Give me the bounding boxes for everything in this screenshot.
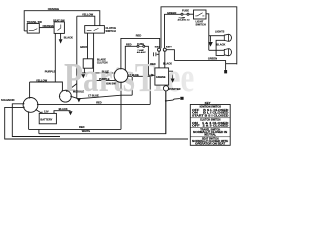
- svg-text:RED: RED: [150, 62, 156, 66]
- svg-text:AG-AGC: AG-AGC: [137, 51, 146, 54]
- svg-text:BLACK: BLACK: [216, 43, 225, 47]
- ignition terminal dots: [114, 68, 129, 83]
- ground arrow lights: [208, 42, 213, 47]
- seat switch SEAT SW: [54, 22, 64, 34]
- wire orange top run: [24, 11, 100, 31]
- svg-text:KEY: KEY: [205, 101, 211, 105]
- svg-text:LT BLUE: LT BLUE: [88, 93, 99, 97]
- connector dot lights: [224, 70, 227, 73]
- wire lamp black chain: [216, 40, 224, 55]
- svg-text:TRAVEL SW: TRAVEL SW: [27, 20, 43, 24]
- wire solenoid left loop B: [5, 107, 188, 139]
- wire lights lower link: [226, 63, 237, 65]
- light switch box: [194, 10, 207, 19]
- ground arrow battery black: [69, 111, 73, 115]
- wire bus L2 notch: [38, 130, 40, 134]
- wire bus L1: [29, 128, 121, 130]
- wire travel left stub: [24, 30, 27, 32]
- wire fuse2 to light switch: [189, 13, 194, 15]
- svg-text:STARTER: STARTER: [168, 87, 180, 91]
- svg-text:12V: 12V: [44, 110, 49, 114]
- svg-text:OFF 2 & 3 CLOSED: OFF 2 & 3 CLOSED: [192, 124, 229, 127]
- clutch switch box: [85, 26, 105, 33]
- svg-text:PURPLE: PURPLE: [99, 77, 110, 81]
- svg-text:SOLENOID: SOLENOID: [1, 98, 15, 102]
- svg-text:RED: RED: [96, 101, 102, 105]
- svg-text:NEUTRAL: NEUTRAL: [204, 134, 216, 137]
- battery terminal ticks: [42, 112, 54, 114]
- svg-text:START B S I CLOSED: START B S I CLOSED: [192, 114, 229, 117]
- svg-text:BLACK: BLACK: [163, 61, 172, 65]
- svg-text:YELLOW: YELLOW: [82, 13, 94, 17]
- batt terminal circle: [163, 48, 166, 51]
- svg-text:CLUTCH: CLUTCH: [97, 60, 108, 64]
- wire starter B zigzag: [166, 99, 180, 101]
- wire module diagonal: [67, 84, 77, 92]
- svg-text:GREEN: GREEN: [208, 56, 217, 60]
- svg-text:FUSE: FUSE: [182, 9, 189, 13]
- svg-text:WHITE: WHITE: [82, 129, 91, 133]
- lamp 2: [224, 49, 228, 56]
- wire gray clutch drop: [87, 33, 89, 59]
- svg-text:AG-AGC 13: AG-AGC 13: [178, 19, 191, 22]
- wire bus L2: [39, 91, 166, 134]
- ignition switch circle: [114, 69, 128, 83]
- key table: [192, 101, 229, 146]
- wire seat circuit vertical: [76, 16, 78, 99]
- svg-text:SEAT SW: SEAT SW: [53, 18, 65, 22]
- wire solenoid to battery diagonal: [36, 110, 42, 114]
- wire connector stem: [225, 64, 227, 70]
- svg-text:IGN SW: IGN SW: [106, 82, 116, 86]
- svg-text:RED: RED: [126, 43, 132, 47]
- wire light switch feed: [206, 14, 209, 51]
- wire ignition red riser: [121, 38, 160, 68]
- wire blue to ignition: [80, 72, 114, 74]
- svg-text:RED: RED: [79, 125, 85, 129]
- svg-text:BLACK: BLACK: [59, 107, 68, 111]
- key table box: [190, 105, 230, 146]
- wire starter drop: [165, 91, 167, 134]
- svg-text:LT BLUE: LT BLUE: [128, 73, 139, 77]
- solenoid terminal dots: [23, 97, 39, 113]
- wire batt lighting tap: [166, 50, 174, 61]
- wire ignition right detour: [128, 76, 150, 104]
- ground arrow engine right: [171, 79, 175, 83]
- engine box: [155, 68, 169, 85]
- wire solenoid left loop A: [12, 104, 60, 137]
- wire points stub: [157, 53, 159, 55]
- wire yellow top run: [77, 16, 95, 25]
- blade clutch box: [83, 59, 93, 68]
- mag terminal circle: [158, 48, 161, 51]
- wire detour branch drop: [131, 77, 133, 96]
- svg-text:ORANGE: ORANGE: [48, 7, 60, 11]
- svg-text:GREEN: GREEN: [167, 11, 176, 15]
- svg-text:BATT: BATT: [166, 45, 172, 48]
- svg-text:MODULE: MODULE: [73, 89, 85, 93]
- wire yellow horizontal: [30, 82, 63, 91]
- svg-text:OPERATOR ON SEAT: OPERATOR ON SEAT: [195, 142, 226, 145]
- wire engine right ground stem: [169, 71, 173, 78]
- points symbol: [154, 52, 156, 56]
- svg-text:BATTERY: BATTERY: [40, 117, 52, 121]
- module terminal dots: [59, 90, 72, 97]
- module circle: [60, 90, 72, 102]
- wire seat ground stem: [60, 33, 62, 39]
- wire fuse to engine arrow: [145, 46, 152, 75]
- wire blade clutch bottom: [83, 68, 85, 73]
- svg-text:BLACK: BLACK: [64, 36, 73, 40]
- svg-text:GRAY: GRAY: [80, 45, 88, 49]
- junction dot starter wire: [165, 100, 167, 102]
- svg-text:BLUE: BLUE: [102, 69, 109, 73]
- arrowhead into engine: [151, 74, 155, 77]
- wire lights top loop: [161, 7, 237, 65]
- wire solenoid top drop: [29, 82, 31, 98]
- wire travel-to-seat: [39, 27, 54, 29]
- wire batt drop to engine: [164, 51, 166, 68]
- fuse symbol 1: [137, 45, 139, 47]
- svg-text:SWITCH: SWITCH: [106, 29, 116, 33]
- wire green engine run: [165, 14, 182, 48]
- battery box: [39, 113, 56, 123]
- lamp 1: [224, 34, 228, 41]
- svg-text:MAG: MAG: [155, 45, 160, 48]
- wire red bus: [38, 103, 150, 105]
- wire green return: [174, 61, 225, 64]
- fuse symbol 2: [181, 13, 183, 15]
- wire ignition fuse riser: [125, 46, 137, 70]
- svg-text:ENGINE: ENGINE: [156, 76, 166, 79]
- connector dot B terminal: [180, 97, 183, 100]
- wire lights ground stem: [209, 36, 211, 42]
- ground arrow module: [77, 98, 81, 102]
- wire seat purple drop: [54, 33, 56, 82]
- wire ignition bottom drop: [120, 82, 122, 129]
- wire lamp2 power: [209, 49, 225, 51]
- svg-text:PURPLE: PURPLE: [45, 69, 56, 73]
- svg-text:LIGHTS: LIGHTS: [215, 29, 225, 33]
- wire mag drop to engine: [158, 51, 160, 68]
- starter circle: [163, 86, 168, 91]
- wire lt blue module to ignition: [71, 95, 132, 99]
- wire solenoid bottom drop: [28, 112, 30, 129]
- ground arrow blade clutch: [81, 74, 85, 78]
- svg-text:RED: RED: [136, 34, 142, 38]
- ground arrow under seat switch: [59, 39, 63, 43]
- solenoid circle: [23, 98, 38, 113]
- wire battery black ground: [54, 111, 71, 114]
- svg-text:YELLOW: YELLOW: [36, 79, 48, 83]
- svg-text:FUSE: FUSE: [137, 42, 144, 46]
- svg-text:SWITCH: SWITCH: [196, 22, 206, 26]
- svg-text:ORANGE: ORANGE: [43, 24, 55, 28]
- wire lamp1 power: [209, 35, 225, 37]
- travel switch TRAVEL SW: [27, 24, 39, 34]
- wire purple clutch drop: [94, 33, 115, 80]
